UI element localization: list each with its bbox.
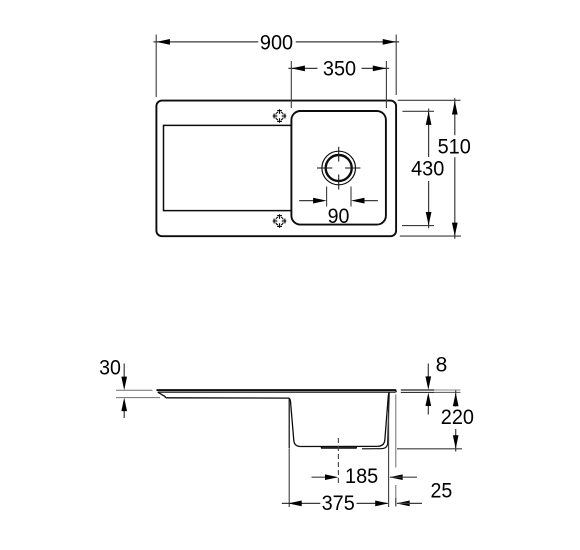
bowl outer left wall <box>288 398 290 448</box>
dimension 30 <box>99 356 160 418</box>
svg-text:430: 430 <box>411 158 444 181</box>
rim top line <box>157 389 395 391</box>
bowl outline <box>291 111 386 225</box>
tap hole top <box>273 109 287 123</box>
dimension 350 <box>288 57 389 108</box>
drainboard front slope <box>158 392 166 398</box>
svg-text:30: 30 <box>99 356 121 379</box>
svg-text:510: 510 <box>438 136 471 159</box>
dimension 510 <box>398 98 471 239</box>
svg-text:375: 375 <box>322 492 355 515</box>
bowl outer right wall <box>362 393 389 449</box>
drain outer circle <box>322 151 356 185</box>
dimension 8 <box>401 353 461 414</box>
drain axis dashed line <box>337 438 339 483</box>
drain recess <box>321 447 356 448</box>
bowl inner left wall <box>289 398 300 446</box>
dimension 25 <box>396 395 453 507</box>
dimension 430 <box>402 109 444 229</box>
dimension 90 <box>299 187 378 228</box>
dimension 185 <box>312 465 418 488</box>
dimension 900 <box>153 32 399 98</box>
rim underside line <box>158 391 397 392</box>
bowl inner bottom <box>300 445 377 447</box>
drain center cross <box>317 147 360 190</box>
dimension 220 <box>397 390 474 451</box>
drain inner circle <box>326 155 352 181</box>
tap hole bottom <box>273 214 287 228</box>
drainboard surface <box>166 397 289 399</box>
svg-text:220: 220 <box>441 406 474 429</box>
svg-text:8: 8 <box>436 353 448 376</box>
svg-text:25: 25 <box>431 480 453 503</box>
dimension 375 <box>282 412 389 515</box>
svg-text:350: 350 <box>323 57 356 80</box>
svg-text:90: 90 <box>328 205 350 228</box>
bowl inner right wall <box>378 393 389 447</box>
svg-text:900: 900 <box>260 32 293 55</box>
sink outer outline <box>156 101 396 237</box>
drainboard rectangle <box>164 125 292 210</box>
svg-text:185: 185 <box>345 465 378 488</box>
